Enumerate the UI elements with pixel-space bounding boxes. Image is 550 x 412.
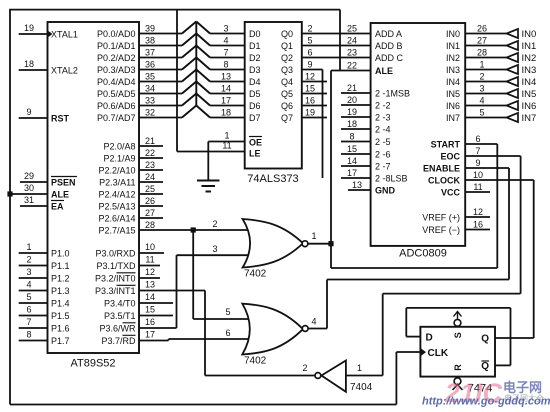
wire ADC IN7 line [465,117,506,119]
svg-text:P0.7/AD7: P0.7/AD7 [97,113,136,123]
svg-text:GND: GND [375,185,396,195]
svg-text:D: D [426,333,433,344]
label P3.1/TXD [96,261,136,271]
svg-text:6: 6 [475,134,480,144]
svg-text:XTAL1: XTAL1 [51,29,78,39]
wire ADC IN1 line [465,45,506,47]
svg-text:7: 7 [475,146,480,156]
svg-text:P1.4: P1.4 [51,298,70,308]
svg-text:AT89S52: AT89S52 [70,358,115,370]
svg-text:27: 27 [477,36,487,46]
wire 7474 Q to ADC CLOCK [465,180,534,338]
pin 8 line P1.7 [19,330,48,341]
label P3.3/INT1 [95,285,136,296]
svg-text:XTAL2: XTAL2 [51,65,78,75]
svg-text:P2.2/A10: P2.2/A10 [98,165,135,175]
svg-text:11: 11 [145,255,154,265]
svg-text:P2.5/A13: P2.5/A13 [98,201,135,211]
node IN4 connector triangle [507,77,519,86]
svg-text:29: 29 [24,171,34,181]
svg-text:8: 8 [26,330,31,340]
node IN0 connector triangle [507,29,519,38]
svg-text:2: 2 [302,363,307,373]
wire 7404 output to P3.3 INT1 [139,291,315,376]
svg-text:IN0: IN0 [522,29,537,40]
svg-text:22: 22 [347,61,357,71]
svg-text:21: 21 [347,83,357,93]
svg-text:25: 25 [347,24,357,34]
svg-text:ADD C: ADD C [375,53,404,63]
svg-text:7402: 7402 [244,269,267,280]
svg-text:VCC: VCC [441,187,461,197]
svg-text:18: 18 [347,119,357,129]
svg-text:P0.3/AD3: P0.3/AD3 [97,65,136,75]
svg-text:VREF (−): VREF (−) [422,225,460,235]
svg-text:2 -8LSB: 2 -8LSB [375,173,408,183]
svg-text:33: 33 [145,96,155,106]
pin 4 line P1.3 [19,280,48,291]
svg-text:5: 5 [26,292,31,302]
pin 19 line XTAL1 with clock arrow [19,23,53,38]
wire Q4 stub [302,81,327,83]
svg-text:2 -2: 2 -2 [375,100,391,110]
wire ADC data 2-7 pin 14 stub [341,165,371,167]
wire ADC GND pin13 stub [348,189,371,191]
svg-text:D6: D6 [249,101,261,111]
svg-text:P1.0: P1.0 [51,248,70,258]
svg-text:P1.5: P1.5 [51,311,70,321]
svg-text:2: 2 [212,219,217,229]
svg-text:9: 9 [475,158,480,168]
junction on ALE rail at pin30 [7,191,12,196]
pin 7 line P1.6 [19,317,48,328]
svg-text:http://www.go-gddq.com: http://www.go-gddq.com [422,396,550,408]
svg-text:EOC: EOC [440,151,460,161]
svg-text:2: 2 [26,255,31,265]
svg-text:16: 16 [305,96,315,106]
svg-text:P3.1/TXD: P3.1/TXD [96,261,136,271]
pin 21 line P2.0 [139,136,163,146]
svg-text:19: 19 [305,108,315,118]
svg-text:4: 4 [26,280,31,290]
svg-text:30: 30 [24,183,34,193]
wire EOC net to 7404 input [346,156,521,376]
svg-text:14: 14 [347,156,357,166]
svg-text:P2.7/A15: P2.7/A15 [98,225,135,235]
svg-text:P2.4/A12: P2.4/A12 [98,189,135,199]
set bubble and tie-off mark [454,312,462,327]
reset bubble and tie-off mark [453,378,463,390]
svg-text:28: 28 [145,220,155,230]
svg-text:18: 18 [221,108,231,118]
wire ADC data 2-6 pin 15 stub [341,153,371,155]
svg-text:P0.5/AD5: P0.5/AD5 [97,89,136,99]
svg-text:6: 6 [225,328,230,338]
svg-text:23: 23 [347,48,357,58]
wire P0.1/AD1 to D1 [139,34,245,46]
svg-text:D7: D7 [249,113,261,123]
wire ADC IN4 line [465,81,506,83]
svg-text:14: 14 [221,84,231,94]
svg-text:7402: 7402 [244,356,267,367]
svg-text:P0.0/AD0: P0.0/AD0 [97,29,136,39]
svg-text:ENABLE: ENABLE [423,163,460,173]
pin 9 line RST [19,107,48,118]
wire NOR1 output net to ADC ALE + START [308,71,498,269]
svg-text:13: 13 [352,180,362,190]
svg-text:9: 9 [26,107,31,117]
wire ADC data 2-2 pin 20 stub [341,104,371,106]
svg-text:Q7: Q7 [281,113,293,123]
svg-text:5: 5 [225,307,230,317]
wire ALE net: MCU pin30 to left rail, top rail, 373 LE drop, ADC ALE drop, bottom rail to 7474 CLK [9,10,420,405]
svg-text:7: 7 [223,48,228,58]
svg-text:2 -7: 2 -7 [375,161,391,171]
wire Q6 stub [302,105,327,107]
latch U2 74ALS373 box [245,22,302,169]
svg-text:D5: D5 [249,89,261,99]
svg-text:24: 24 [145,172,155,182]
svg-text:D4: D4 [249,77,261,87]
svg-text:23: 23 [145,160,155,170]
pin 24 line P2.3 [139,172,163,182]
wire ADC data 2-1 pin 21 stub [341,92,371,94]
svg-text:7: 7 [26,317,31,327]
label P3.2/INT0 [95,273,136,284]
svg-text:P3.5/T1: P3.5/T1 [104,311,136,321]
nor gate U4A 7402 (START strobe) [243,219,308,268]
svg-text:IN1: IN1 [522,41,537,52]
svg-text:12: 12 [473,207,483,217]
svg-text:7404: 7404 [350,382,373,393]
pin 6 line P1.5 [19,305,48,316]
label S set input (rotated) [453,332,463,338]
wire P0.5/AD5 to D5 [139,82,245,94]
node IN5 connector triangle [507,89,519,98]
wire Q5 stub [302,93,327,95]
svg-text:IN7: IN7 [522,113,537,124]
svg-text:26: 26 [477,24,487,34]
nor gate U4B 7402 (ENABLE strobe) [242,304,308,355]
svg-text:25: 25 [145,184,155,194]
pin 29 line PSEN [20,171,48,182]
svg-text:31: 31 [24,195,34,205]
pin 22 line P2.1 [139,148,163,158]
label PSEN with overline [51,177,77,188]
svg-text:17: 17 [347,168,357,178]
wire Q1 to ADC ADD B [302,45,371,47]
label EA with overline [51,201,64,212]
wire VREF(-) pin16 stub [465,229,490,231]
pin 15 label P3.5 [139,305,173,316]
svg-text:1: 1 [357,363,362,373]
svg-text:CLOCK: CLOCK [428,175,460,185]
pin 26 line P2.5 [139,196,163,206]
svg-text:13: 13 [145,280,155,290]
svg-text:Q4: Q4 [281,77,293,87]
pin 1 line P1.0 [19,242,48,253]
svg-text:5: 5 [479,108,484,118]
svg-text:3: 3 [223,24,228,34]
svg-text:2 -5: 2 -5 [375,137,391,147]
adc U3 ADC0809 box [371,23,466,246]
svg-text:36: 36 [145,60,155,70]
svg-text:D1: D1 [249,41,261,51]
svg-text:P1.3: P1.3 [51,286,70,296]
svg-text:P3.4/T0: P3.4/T0 [104,298,136,308]
svg-text:8: 8 [349,132,354,142]
svg-text:IN7: IN7 [446,113,460,123]
svg-text:Q: Q [481,334,489,345]
svg-text:Q0: Q0 [281,29,293,39]
svg-text:37: 37 [145,48,155,58]
pin 11 label P3.1 [139,255,160,266]
svg-text:16: 16 [473,220,483,230]
svg-text:R: R [453,364,463,371]
wire VCC pin11 stub [465,191,490,193]
svg-text:START: START [431,139,461,149]
label P3.0/RXD [95,248,136,258]
svg-text:24: 24 [347,36,357,46]
flip-flop U6 7474 box [420,327,495,377]
svg-text:P0.1/AD1: P0.1/AD1 [97,41,136,51]
pin 23 line P2.2 [139,160,163,170]
svg-text:10: 10 [473,170,483,180]
svg-text:6: 6 [307,48,312,58]
svg-text:Q3: Q3 [281,65,293,75]
svg-text:39: 39 [145,24,155,34]
svg-text:IN2: IN2 [522,53,537,64]
wire P0.7/AD7 to D7 [139,106,245,118]
pin 1 line OE [208,131,244,142]
svg-text:13: 13 [221,72,231,82]
wire P3.7 RD net to NOR2 input6 [139,339,254,341]
bus P0 trunk [195,22,197,106]
svg-text:17: 17 [145,330,155,340]
svg-text:EA: EA [51,201,64,211]
svg-text:P2.1/A9: P2.1/A9 [103,153,135,163]
svg-text:19: 19 [24,23,34,33]
wire P3.6 WR net to NOR1 input3 [139,255,254,328]
svg-text:P3.2/INT0: P3.2/INT0 [95,273,136,283]
svg-text:IN5: IN5 [522,89,537,100]
node IN6 connector triangle [507,101,519,110]
pin 14 label P3.4 [139,292,173,303]
inverter U5 7404 (EOC to INT1) [315,361,346,392]
label Qbar output [481,361,489,372]
wire Q0 to ADC ADD A [302,33,371,35]
svg-text:11: 11 [222,141,231,151]
microcontroller U1 AT89S52 box [48,22,140,353]
svg-text:6: 6 [26,305,31,315]
svg-text:电子网: 电子网 [503,380,542,395]
svg-text:IN6: IN6 [522,101,537,112]
svg-text:ADC0809: ADC0809 [399,248,447,260]
svg-text:Q1: Q1 [281,41,293,51]
svg-text:2 -6: 2 -6 [375,149,391,159]
svg-text:3: 3 [479,84,484,94]
svg-text:IN3: IN3 [446,65,460,75]
node IN2 connector triangle [507,53,519,62]
svg-text:1: 1 [26,242,31,252]
label P3.4/T0 [104,298,136,308]
svg-text:11: 11 [473,182,482,192]
svg-text:18: 18 [24,59,34,69]
svg-text:ADD A: ADD A [375,29,402,39]
svg-text:35: 35 [145,72,155,82]
svg-text:CLK: CLK [428,348,449,359]
node IN7 connector triangle [507,113,519,122]
svg-text:IN3: IN3 [522,65,537,76]
svg-text:OE: OE [249,137,262,147]
label OE with overline [249,137,262,148]
node IN3 connector triangle [507,65,519,74]
svg-text:9: 9 [307,60,312,70]
svg-text:4: 4 [311,317,316,327]
svg-text:Q: Q [481,361,489,372]
wire ADC data 2-3 pin 19 stub [341,116,371,118]
wire P0.6/AD6 to D6 [139,94,245,106]
svg-text:P2.3/A11: P2.3/A11 [99,177,135,187]
svg-text:IN4: IN4 [522,77,537,88]
wire ADC data 2-8 pin 17 stub [341,177,371,179]
svg-text:4: 4 [223,36,228,46]
label P3.5/T1 [104,311,136,321]
svg-text:12: 12 [305,72,315,82]
svg-text:2 -4: 2 -4 [375,124,391,134]
svg-text:P1.2: P1.2 [51,273,70,283]
svg-text:4: 4 [479,96,484,106]
wire ADC IN2 line [465,57,506,59]
svg-text:38: 38 [145,36,155,46]
label P3.7/RD [101,335,136,346]
svg-text:P3.6/WR: P3.6/WR [99,323,136,333]
pin 25 line P2.4 [139,184,163,194]
svg-text:2 -1MSB: 2 -1MSB [375,88,410,98]
pin 5 line P1.4 [19,292,48,303]
svg-text:15: 15 [305,84,315,94]
pin 10 label P3.0 [139,242,164,253]
svg-text:10: 10 [145,242,155,252]
svg-text:21: 21 [145,136,155,146]
ground symbol [197,142,220,192]
svg-text:1: 1 [311,231,316,241]
svg-text:D3: D3 [249,65,261,75]
wire ADC IN0 line [465,33,506,35]
svg-text:P1.1: P1.1 [51,261,70,271]
svg-text:8: 8 [223,60,228,70]
pin 2 line P1.1 [19,255,48,266]
svg-text:PSEN: PSEN [51,177,76,187]
wire ADC data 2-5 pin 8 stub [341,141,371,143]
svg-text:12: 12 [145,267,155,277]
svg-text:D2: D2 [249,53,261,63]
pin 31 line EA [20,195,48,206]
svg-text:34: 34 [145,84,155,94]
label P3.6/WR [99,323,136,334]
wire P0.0/AD0 to D0 [139,22,245,34]
wire ADC IN5 line [465,93,506,95]
svg-text:P1.6: P1.6 [51,323,70,333]
pin 18 line XTAL2 [19,59,48,70]
svg-text:P2.6/A14: P2.6/A14 [98,213,135,223]
wire ADC data 2-4 pin 18 stub [341,128,371,130]
svg-text:P3.3/INT1: P3.3/INT1 [95,286,136,296]
wire P0.3/AD3 to D3 [139,58,245,70]
svg-text:16: 16 [145,317,155,327]
svg-text:S: S [453,332,463,338]
pin 12 label P3.2 [139,267,160,278]
svg-text:P0.4/AD4: P0.4/AD4 [97,77,136,87]
wire NOR2 output net to ADC ENABLE [307,168,509,329]
svg-text:VREF (+): VREF (+) [422,212,460,222]
clock input wedge [420,348,426,356]
svg-text:2: 2 [307,24,312,34]
node IN1 connector triangle [507,41,519,50]
svg-text:IN6: IN6 [446,101,460,111]
svg-text:2 -3: 2 -3 [375,112,391,122]
junction NOR1 output / START rail [328,241,333,246]
svg-text:IN1: IN1 [446,41,460,51]
svg-text:3: 3 [212,244,217,254]
svg-text:14: 14 [145,292,155,302]
svg-text:P2.0/A8: P2.0/A8 [103,141,135,151]
svg-text:28: 28 [477,48,487,58]
wire ADC IN3 line [465,69,506,71]
svg-text:ALE: ALE [375,66,393,76]
wire ADC IN6 line [465,105,506,107]
svg-text:Q2: Q2 [281,53,293,63]
wire P0.4/AD4 to D4 [139,70,245,82]
label R reset input (rotated) [453,364,463,371]
svg-text:IN2: IN2 [446,53,460,63]
svg-text:15: 15 [347,144,357,154]
svg-text:74ALS373: 74ALS373 [247,173,298,185]
pin 3 line P1.2 [19,267,48,278]
svg-text:15: 15 [145,305,155,315]
svg-text:1: 1 [479,60,484,70]
wire Q2 to ADC ADD C [302,57,371,59]
svg-text:20: 20 [347,95,357,105]
svg-text:32: 32 [145,108,155,118]
svg-text:17: 17 [221,96,231,106]
svg-text:3: 3 [26,267,31,277]
svg-text:2: 2 [479,72,484,82]
svg-text:ALE: ALE [51,189,69,199]
svg-text:RST: RST [51,113,70,123]
svg-text:22: 22 [145,148,155,158]
svg-text:Q5: Q5 [281,89,293,99]
svg-text:27: 27 [145,208,155,218]
svg-text:LE: LE [249,148,261,158]
wire Q3 pin9 vertical [302,70,323,179]
wire P2.7 net to NOR1 input2 and NOR2 input5 [139,230,254,319]
wire P0.2/AD2 to D2 [139,46,245,58]
wire Q7 stub [302,117,327,119]
svg-text:IN0: IN0 [446,29,460,39]
svg-text:ADD B: ADD B [375,41,403,51]
svg-text:26: 26 [145,196,155,206]
svg-text:19: 19 [347,107,357,117]
svg-text:P3.7/RD: P3.7/RD [101,336,136,346]
svg-text:IN5: IN5 [446,89,460,99]
junction P2.7 branch [191,227,196,232]
svg-text:5: 5 [307,36,312,46]
svg-text:1: 1 [224,131,229,141]
svg-text:P0.6/AD6: P0.6/AD6 [97,101,136,111]
wire VREF(+) pin12 stub [465,216,490,218]
svg-text:P3.0/RXD: P3.0/RXD [95,248,136,258]
